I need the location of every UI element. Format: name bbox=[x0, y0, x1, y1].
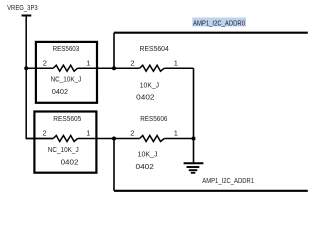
svg-text:RES5603: RES5603 bbox=[53, 44, 80, 53]
node junction rail row1 bbox=[24, 66, 28, 70]
node junction row1 ADDR0 tap bbox=[112, 66, 116, 70]
svg-text:VREG_3P3: VREG_3P3 bbox=[7, 3, 38, 12]
svg-text:2: 2 bbox=[43, 129, 47, 138]
ground symbol bbox=[184, 163, 204, 173]
svg-text:1: 1 bbox=[86, 58, 90, 67]
wire row2 right segment b bbox=[164, 138, 193, 140]
svg-text:10K_J: 10K_J bbox=[140, 80, 159, 89]
svg-text:0402: 0402 bbox=[136, 92, 154, 101]
net AMP1_I2C_ADDR1 wire bbox=[114, 190, 308, 192]
resistor R5603 body zigzag bbox=[53, 65, 77, 71]
svg-text:2: 2 bbox=[130, 58, 134, 67]
svg-text:AMP1_I2C_ADDR0: AMP1_I2C_ADDR0 bbox=[193, 18, 245, 27]
wire left rail vertical with corner to row2 bbox=[26, 16, 53, 139]
wire row1 right segment b bbox=[164, 67, 193, 69]
svg-text:1: 1 bbox=[174, 129, 178, 138]
svg-text:RES5606: RES5606 bbox=[140, 114, 167, 123]
svg-text:0402: 0402 bbox=[136, 162, 154, 171]
wire row1 mid segment bbox=[78, 67, 114, 69]
resistor R5606 body zigzag bbox=[140, 136, 165, 142]
resistor RES5603 box bbox=[36, 42, 97, 103]
power symbol VREG_3P3 bar bbox=[22, 15, 32, 17]
net AMP1_I2C_ADDR0 wire bbox=[114, 32, 308, 34]
svg-text:10K_J: 10K_J bbox=[138, 150, 158, 159]
wire ADDR0 riser bbox=[113, 33, 115, 68]
wire row1 right segment a bbox=[114, 67, 140, 69]
resistor R5604 body zigzag bbox=[140, 65, 165, 71]
wire row2 mid segment bbox=[78, 138, 114, 140]
wire row2 right segment a bbox=[114, 138, 140, 140]
wire row1 left segment bbox=[26, 67, 53, 69]
node junction row2 ground bbox=[192, 137, 196, 141]
node junction row2 ADDR1 tap bbox=[112, 137, 116, 141]
svg-text:RES5605: RES5605 bbox=[53, 114, 81, 123]
svg-text:0402: 0402 bbox=[52, 87, 68, 96]
svg-text:1: 1 bbox=[86, 129, 90, 138]
net label highlight AMP1_I2C_ADDR0 bbox=[192, 18, 246, 27]
svg-text:2: 2 bbox=[43, 58, 47, 67]
svg-text:RES5604: RES5604 bbox=[140, 44, 169, 53]
wire ADDR1 drop vertical bbox=[113, 139, 115, 191]
svg-text:NC_10K_J: NC_10K_J bbox=[51, 74, 82, 83]
wire ground drop vertical bbox=[193, 68, 195, 162]
svg-text:2: 2 bbox=[130, 129, 134, 138]
resistor R5605 body zigzag bbox=[53, 136, 77, 142]
svg-text:0402: 0402 bbox=[61, 157, 79, 166]
resistor RES5605 box bbox=[34, 112, 96, 173]
wire row2 left segment bbox=[26, 138, 53, 140]
svg-text:AMP1_I2C_ADDR1: AMP1_I2C_ADDR1 bbox=[202, 176, 254, 185]
svg-text:1: 1 bbox=[174, 58, 178, 67]
svg-text:NC_10K_J: NC_10K_J bbox=[48, 145, 79, 154]
